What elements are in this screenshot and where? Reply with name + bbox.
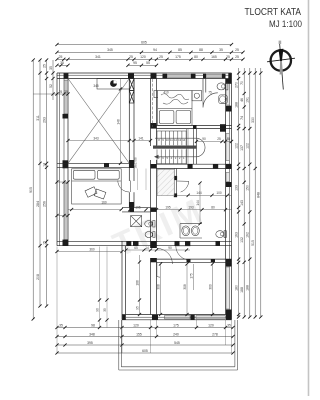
svg-text:75: 75 (208, 91, 212, 95)
svg-text:9: 9 (162, 138, 164, 142)
wall: room divider left horizontal (57, 162, 129, 164)
sink S1 (bath 1) (219, 95, 227, 104)
col r4 (254, 68, 256, 317)
closet top-left room (97, 79, 129, 90)
dark jambs bottom wall (122, 315, 231, 320)
window W2 top (bathroom 1) (206, 74, 222, 77)
svg-text:85: 85 (227, 137, 231, 141)
window W6 right (bath 2) (226, 173, 229, 182)
int dim void room y140.5 (68, 140, 151, 142)
wall: left exterior (56, 73, 58, 246)
svg-text:94: 94 (153, 48, 157, 52)
terrace outline (119, 320, 238, 370)
svg-text:132: 132 (240, 237, 244, 243)
window W3 left (void room) (64, 80, 68, 114)
int dim bottom room vertical x160.5 (160, 264, 162, 315)
svg-text:15: 15 (42, 241, 46, 245)
svg-text:256: 256 (42, 201, 46, 207)
svg-text:345: 345 (107, 48, 113, 52)
svg-text:137: 137 (240, 145, 244, 151)
svg-text:35: 35 (227, 323, 231, 327)
svg-text:25: 25 (59, 55, 63, 59)
dimension rows bottom (55, 247, 234, 355)
svg-text:188: 188 (234, 102, 238, 108)
svg-text:95: 95 (133, 61, 137, 65)
svg-text:162: 162 (246, 232, 250, 238)
svg-text:88: 88 (199, 48, 203, 52)
svg-text:10: 10 (166, 138, 170, 142)
furniture (72, 83, 228, 238)
void room X diagonals (68, 79, 129, 164)
svg-text:25: 25 (129, 55, 133, 59)
closet hall (157, 169, 174, 195)
svg-text:14: 14 (145, 246, 149, 250)
svg-text:144: 144 (196, 191, 202, 195)
int dim bath row y209.7 (157, 209, 232, 211)
window W5b right (hall) (226, 134, 229, 161)
col r5 overall (260, 68, 262, 317)
svg-text:95: 95 (135, 306, 139, 310)
svg-text:195: 195 (135, 206, 141, 210)
col1 overall (32, 60, 34, 319)
vanity counter bath 2 (180, 223, 202, 225)
svg-text:90: 90 (95, 308, 99, 312)
window W4 left (bedroom 2) (64, 183, 68, 240)
wall: bath2 partition vertical (173, 169, 175, 198)
int dim bedroom2 bottom y251.5 (57, 251, 122, 253)
svg-text:52: 52 (49, 84, 53, 88)
svg-text:35: 35 (103, 308, 107, 312)
svg-text:13: 13 (178, 138, 182, 142)
wall: bedroom1 / stair divider (157, 124, 232, 126)
north compass (267, 41, 295, 90)
svg-text:905: 905 (29, 187, 33, 193)
wall: hall/stair edge (193, 129, 195, 165)
svg-text:14: 14 (42, 163, 46, 167)
stair step numbers (158, 138, 186, 160)
svg-text:148: 148 (116, 119, 120, 125)
svg-text:141: 141 (138, 136, 144, 140)
svg-text:175: 175 (173, 323, 179, 327)
svg-text:80: 80 (194, 55, 198, 59)
toilet WC3 (left bath) (145, 221, 153, 227)
window W1 top (bedroom 1) (167, 74, 191, 77)
svg-text:8: 8 (158, 138, 160, 142)
int dim ticks left wall y182 (57, 181, 68, 183)
svg-text:120: 120 (208, 323, 214, 327)
svg-text:90: 90 (168, 246, 172, 250)
int dim corridor y250 (126, 249, 190, 251)
svg-text:35: 35 (49, 66, 53, 70)
wall: central spine vertical (151, 79, 157, 315)
int dim void room vertical x120.5 (120, 79, 122, 164)
svg-text:74: 74 (240, 116, 244, 120)
row1 overall 605 (57, 44, 232, 46)
wall: shaft wall A vertical (129, 79, 134, 208)
svg-text:133: 133 (234, 185, 238, 191)
bed B1 (bedroom 1) (158, 91, 192, 126)
svg-text:122: 122 (246, 143, 250, 149)
window W8 bottom (left leaf) (165, 316, 191, 319)
dimension rows top (55, 40, 244, 67)
svg-text:35: 35 (59, 323, 63, 327)
svg-text:35: 35 (219, 48, 223, 52)
svg-text:293: 293 (42, 117, 46, 123)
int dim col x99.5/x107 labels (98, 318, 101, 321)
svg-text:85: 85 (178, 48, 182, 52)
labels rotated (234, 81, 260, 293)
dimension cols left (29, 58, 55, 320)
labels (59, 40, 239, 65)
closet lines corridor (137, 169, 139, 191)
svg-text:545: 545 (174, 341, 180, 345)
svg-text:46: 46 (240, 98, 244, 102)
sink S2 (182, 226, 190, 236)
svg-text:191: 191 (246, 97, 250, 103)
row2 (57, 51, 243, 53)
svg-text:240: 240 (173, 332, 179, 336)
row D overall (57, 352, 233, 354)
svg-text:65: 65 (134, 246, 138, 250)
col r2 (243, 68, 245, 317)
interior dims (33, 79, 233, 322)
wall: right exterior (231, 73, 233, 320)
svg-text:MJ 1:100: MJ 1:100 (269, 19, 302, 29)
col r1 (238, 68, 240, 317)
wall: left bath top partition (122, 206, 151, 208)
stair flight upper treads (157, 131, 187, 145)
svg-text:848: 848 (257, 192, 261, 198)
svg-text:180: 180 (234, 285, 238, 291)
int dim bottom room vertical x212.5 (212, 264, 214, 315)
svg-text:284: 284 (36, 201, 40, 207)
svg-text:25: 25 (64, 90, 68, 94)
svg-text:165: 165 (211, 55, 217, 59)
svg-text:175: 175 (175, 55, 181, 59)
svg-text:195: 195 (165, 206, 171, 210)
svg-text:25: 25 (159, 55, 163, 59)
svg-text:90: 90 (202, 137, 206, 141)
row B (57, 336, 233, 338)
nightstand N2 with lamp (192, 91, 202, 101)
svg-text:120: 120 (133, 323, 139, 327)
col4 short (52, 60, 54, 100)
int dim bath2 row y194 (177, 194, 232, 196)
svg-text:311: 311 (36, 115, 40, 121)
int dim bath1 label (208, 91, 212, 95)
svg-text:80: 80 (211, 206, 215, 210)
window W5 right (bath 1) (226, 81, 229, 106)
svg-text:144: 144 (196, 200, 200, 206)
stair direction curve (155, 138, 205, 157)
door arc bath1 (203, 93, 218, 108)
row3 (57, 58, 243, 60)
int dim bottom room vertical x193.5 (193, 264, 195, 290)
int dim corridor vertical x139.5 (139, 255, 141, 315)
svg-text:515: 515 (251, 240, 255, 246)
svg-text:300: 300 (208, 284, 212, 290)
svg-text:25: 25 (226, 55, 230, 59)
wall: lower-left exterior (121, 241, 123, 319)
int dim left bath y209.7 (128, 208, 131, 211)
svg-text:120: 120 (140, 55, 146, 59)
dark jambs right wall (220, 79, 232, 319)
door arc bath2 (177, 181, 189, 192)
svg-text:160: 160 (101, 201, 107, 205)
svg-text:25: 25 (217, 137, 221, 141)
svg-text:16x17/28: 16x17/28 (134, 157, 138, 169)
svg-text:308: 308 (156, 284, 160, 290)
dark jambs top wall (64, 73, 232, 80)
svg-text:35: 35 (60, 61, 64, 65)
stair landing edges (186, 129, 188, 165)
svg-text:143: 143 (240, 200, 244, 206)
col r3 (249, 68, 251, 317)
extension lines below building (56, 247, 58, 354)
wall: bottom exterior (122, 319, 232, 321)
svg-text:410: 410 (163, 91, 169, 95)
door arcs bottom double door (157, 248, 173, 277)
stair central railing band (153, 146, 197, 149)
svg-text:122: 122 (234, 143, 238, 149)
int dim bottom room vertical x187 (186, 264, 188, 315)
svg-text:98: 98 (91, 323, 95, 327)
svg-text:150: 150 (246, 185, 250, 191)
svg-text:100: 100 (216, 191, 222, 195)
svg-text:25: 25 (235, 48, 239, 52)
svg-text:55: 55 (146, 61, 150, 65)
wall: top exterior (57, 72, 232, 74)
svg-text:605: 605 (142, 349, 148, 353)
nightstand N1 (154, 91, 158, 98)
svg-text:14: 14 (182, 138, 186, 142)
page border right (308, 0, 310, 396)
row4 short ticks (57, 64, 68, 66)
labels (59, 323, 231, 353)
window W9 bottom (right leaf) (196, 316, 225, 319)
svg-text:345: 345 (93, 84, 99, 88)
svg-text:343: 343 (93, 136, 99, 140)
bidet (left bath) (145, 232, 152, 238)
svg-text:25: 25 (59, 90, 63, 94)
wall: stair bottom horizontal (157, 163, 232, 165)
labels rotated (29, 64, 53, 280)
svg-text:348: 348 (89, 332, 95, 336)
row A (57, 327, 233, 329)
svg-text:308: 308 (183, 284, 187, 290)
svg-text:193: 193 (188, 206, 194, 210)
int dim ticks left wall y215.5 (57, 215, 68, 217)
svg-text:175: 175 (189, 273, 193, 279)
svg-text:TRIM: TRIM (107, 191, 209, 264)
stairs (153, 129, 205, 165)
svg-text:360: 360 (89, 247, 95, 251)
svg-text:163: 163 (234, 232, 238, 238)
door arc bedroom2 (118, 181, 130, 193)
svg-text:270: 270 (234, 82, 238, 88)
stair flight lower treads (157, 149, 187, 163)
svg-text:188: 188 (246, 285, 250, 291)
walls (57, 73, 232, 320)
bed B2 (bedroom 2) (72, 169, 122, 204)
toilet WC2 (bath 2) (216, 231, 224, 238)
svg-text:330: 330 (251, 117, 255, 123)
shower (left bath) (131, 216, 142, 227)
int dim hall y141.4 (197, 140, 232, 142)
wall: bottom-right room top (157, 258, 232, 260)
row C (57, 344, 233, 346)
shaft boxes with X (129, 79, 134, 91)
int dim bedroom1 label (163, 91, 169, 95)
col3 (46, 60, 48, 306)
column/drain circle (110, 80, 117, 87)
svg-text:605: 605 (141, 40, 147, 44)
window W7 right (bottom room) (226, 267, 229, 309)
svg-text:188: 188 (135, 280, 139, 286)
int dim row left wall y94 (33, 93, 68, 95)
int dim bedroom2 y209.5 (68, 209, 122, 211)
svg-text:188: 188 (240, 287, 244, 293)
svg-text:70: 70 (240, 81, 244, 85)
svg-text:208: 208 (36, 274, 40, 280)
dark jambs left wall (63, 114, 69, 246)
svg-text:11: 11 (170, 138, 173, 142)
svg-text:395: 395 (87, 341, 93, 345)
svg-text:155: 155 (136, 332, 142, 336)
svg-text:12: 12 (174, 138, 178, 142)
label void room (93, 84, 99, 88)
svg-text:TLOCRT KATA: TLOCRT KATA (245, 7, 302, 18)
col2 (39, 60, 41, 306)
int dim bath2 vertical x200 (199, 183, 201, 224)
toilet WC1 (bath 1) (217, 83, 226, 90)
sink S3 (191, 226, 199, 236)
dimension cols right (234, 68, 262, 319)
wall: bottom of upper-left section (57, 240, 158, 242)
dashed beam line over stairs (152, 79, 154, 127)
wall: strip top (right section of y241) (157, 240, 232, 242)
svg-text:278: 278 (212, 332, 218, 336)
svg-text:25: 25 (235, 55, 239, 59)
wall: bath1 partition vertical (202, 79, 204, 93)
svg-text:341: 341 (95, 55, 101, 59)
svg-text:25: 25 (42, 64, 46, 68)
